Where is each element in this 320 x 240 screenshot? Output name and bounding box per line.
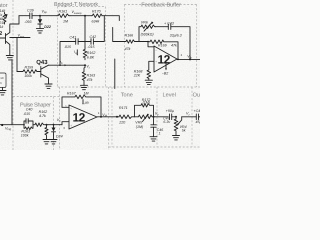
svg-text:(1M): (1M) — [143, 100, 150, 104]
wire (center tap riser) — [84, 16, 86, 47]
current label Im — [74, 50, 78, 56]
ground (C46) — [150, 137, 157, 141]
wire (cap row right riser to top rail) — [93, 16, 104, 42]
svg-text:Output: Output — [193, 92, 200, 98]
node junction — [46, 124, 48, 126]
svg-text:VR6: VR6 — [141, 21, 148, 25]
svg-text:(500kΩ): (500kΩ) — [141, 33, 154, 37]
zener diode D22 — [38, 16, 51, 30]
svg-text:Bridged-T Network: Bridged-T Network — [54, 1, 98, 8]
svg-text:2: 2 — [0, 31, 2, 37]
current label Ib — [60, 61, 67, 67]
svg-text:+90µ: +90µ — [166, 109, 174, 113]
transistor Q42 (designator cut) — [0, 16, 19, 56]
section box Level — [156, 87, 158, 147]
diode D24 (to ground) — [52, 124, 63, 140]
resistor R172 (bridge over VR5) — [135, 98, 154, 117]
svg-text:C40: C40 — [26, 107, 33, 111]
svg-text:Level: Level — [163, 92, 176, 99]
node Vx wire into op-amp — [57, 118, 69, 125]
svg-text:.015: .015 — [64, 45, 71, 49]
svg-text:D24: D24 — [56, 135, 63, 139]
wire (top rail into feedback buffer) — [102, 16, 119, 21]
node Venv — [10, 34, 30, 39]
svg-text:Pulse Shaper: Pulse Shaper — [20, 102, 51, 109]
connector box (cut at left edge) — [0, 73, 6, 88]
svg-text:R166: R166 — [125, 34, 134, 38]
wire (feedback buffer input riser) — [113, 28, 126, 42]
resistor R169 (feedback) — [148, 40, 178, 59]
ground (D24) — [50, 140, 57, 144]
supply arrow -B2 — [162, 62, 169, 76]
capacitor C47 — [163, 109, 176, 124]
capacitor C41 — [64, 35, 78, 49]
resistor R162 — [83, 47, 95, 60]
svg-text:47k: 47k — [171, 44, 177, 48]
capacitor C40 parallel resistor R163b (pulse shaper) — [21, 107, 33, 137]
svg-text:µa: µa — [85, 100, 89, 104]
resistor R (osc, cut at left edge) — [0, 9, 8, 29]
capacitor C39 — [25, 9, 41, 24]
resistor R171 — [118, 106, 134, 125]
resistor R167 (feedback) — [62, 91, 101, 117]
svg-text:+ C43: + C43 — [164, 22, 174, 26]
svg-text:−B2: −B2 — [162, 72, 169, 76]
svg-text:6.3v: 6.3v — [163, 120, 170, 124]
svg-text:45µ: 45µ — [196, 120, 201, 124]
potentiometer VR5 — [135, 114, 154, 129]
capacitor C42 — [88, 35, 97, 49]
node Vt — [84, 64, 90, 69]
svg-text:12: 12 — [158, 53, 171, 67]
svg-text:100k: 100k — [24, 74, 32, 78]
section box Bridged-T Network — [54, 7, 201, 151]
section box Feedback Buffer — [124, 5, 196, 88]
svg-text:1M: 1M — [84, 91, 89, 95]
svg-text:100k: 100k — [21, 134, 29, 138]
section box buffer amp (bottom middle) — [60, 87, 201, 150]
resistor R159 — [17, 38, 41, 79]
capacitor C46 (to ground) — [151, 117, 163, 137]
svg-text:1C: 1C — [0, 76, 4, 80]
potentiometer VR6 (feedback) — [139, 21, 156, 42]
svg-text:R161: R161 — [59, 9, 68, 13]
ground (below connector box) — [0, 88, 6, 95]
ground (R163) — [80, 85, 87, 89]
svg-text:R162: R162 — [87, 51, 96, 55]
ground (VR4) — [173, 136, 180, 140]
wire (C43 to output node) — [171, 27, 190, 60]
svg-text:R163: R163 — [87, 74, 96, 78]
node Vy — [153, 112, 169, 118]
svg-text:Tone: Tone — [121, 93, 133, 99]
resistor R166 — [125, 34, 148, 51]
svg-text:220: 220 — [118, 120, 125, 124]
resistor R164 (to ground) — [45, 125, 48, 140]
resistor R161 — [57, 9, 70, 23]
ground (D22) — [36, 29, 43, 33]
resistor R170 — [92, 9, 103, 23]
node Vfb / output wire — [177, 55, 200, 61]
svg-text:.015: .015 — [23, 112, 30, 116]
svg-text:R170: R170 — [92, 9, 101, 13]
svg-text:R171: R171 — [119, 106, 128, 110]
transistor Q43 — [36, 59, 48, 84]
svg-text:5k: 5k — [182, 129, 186, 133]
capacitor C48 (output, cut) — [194, 109, 203, 124]
svg-text:D22: D22 — [44, 25, 51, 29]
wire — [40, 15, 57, 17]
svg-text:.015: .015 — [88, 45, 95, 49]
svg-text:1k: 1k — [0, 25, 3, 29]
node VM / output wire — [97, 113, 119, 118]
wire (bridged-T capacitor row, left drop) — [60, 42, 76, 66]
node Vz / wire to output — [182, 112, 197, 117]
svg-text:.1: .1 — [158, 132, 161, 136]
wire (inverting input) — [148, 42, 154, 47]
op-amp U12a — [63, 105, 100, 130]
wire (non-inverting input) / resistor R168 — [133, 61, 154, 80]
svg-text:C39: C39 — [27, 9, 34, 13]
svg-text:12: 12 — [73, 111, 86, 125]
svg-text:634k: 634k — [92, 19, 100, 23]
svg-text:R169: R169 — [158, 44, 167, 48]
svg-text:Feedback Buffer: Feedback Buffer — [141, 2, 181, 9]
wire — [78, 41, 91, 43]
svg-text:R159: R159 — [25, 65, 34, 69]
svg-text:R167: R167 — [67, 91, 77, 95]
ground (Q43) — [45, 84, 52, 88]
ground (R168) — [145, 80, 152, 84]
svg-text:6.8K: 6.8K — [87, 56, 95, 60]
section box Tone — [111, 87, 113, 147]
node Vsweep — [72, 10, 87, 17]
capacitor C43 — [156, 22, 182, 38]
ground (Q42 emitter) — [6, 56, 13, 60]
svg-text:C41: C41 — [70, 35, 77, 39]
wire (vertical segment above Tone box) — [114, 59, 116, 89]
ground (R164) — [43, 140, 50, 144]
section box Oscillator (cut off at left) — [13, 0, 60, 150]
op-amp U12b — [154, 46, 183, 72]
svg-text:33µ/6.3: 33µ/6.3 — [170, 33, 182, 37]
wire — [70, 15, 92, 17]
svg-text:(1M): (1M) — [136, 125, 143, 129]
svg-text:47k: 47k — [125, 47, 131, 51]
svg-text:22K: 22K — [133, 74, 141, 78]
wire from Q43 collector to Vt — [49, 64, 86, 66]
wire (trigger line down to pulse shaper) — [11, 60, 13, 125]
svg-text:1M: 1M — [63, 20, 68, 24]
svg-text:47k: 47k — [87, 78, 93, 82]
section box Output — [191, 87, 193, 147]
svg-text:Q43: Q43 — [36, 59, 48, 66]
wire Vtrig — [0, 124, 24, 131]
potentiometer VR4 (level) — [174, 116, 186, 136]
current label uA — [82, 100, 88, 105]
resistor R162b — [33, 110, 47, 126]
wire (inverting input) — [62, 106, 69, 108]
node Vpp — [39, 9, 47, 16]
svg-text:4.7k: 4.7k — [39, 114, 46, 118]
svg-text:+C48: +C48 — [194, 109, 201, 113]
svg-text:.093: .093 — [25, 20, 32, 24]
wire (top rail from Q42 collector) — [19, 15, 29, 17]
svg-text:C42: C42 — [90, 35, 97, 39]
resistor R163 — [82, 65, 95, 85]
wire — [47, 124, 63, 126]
